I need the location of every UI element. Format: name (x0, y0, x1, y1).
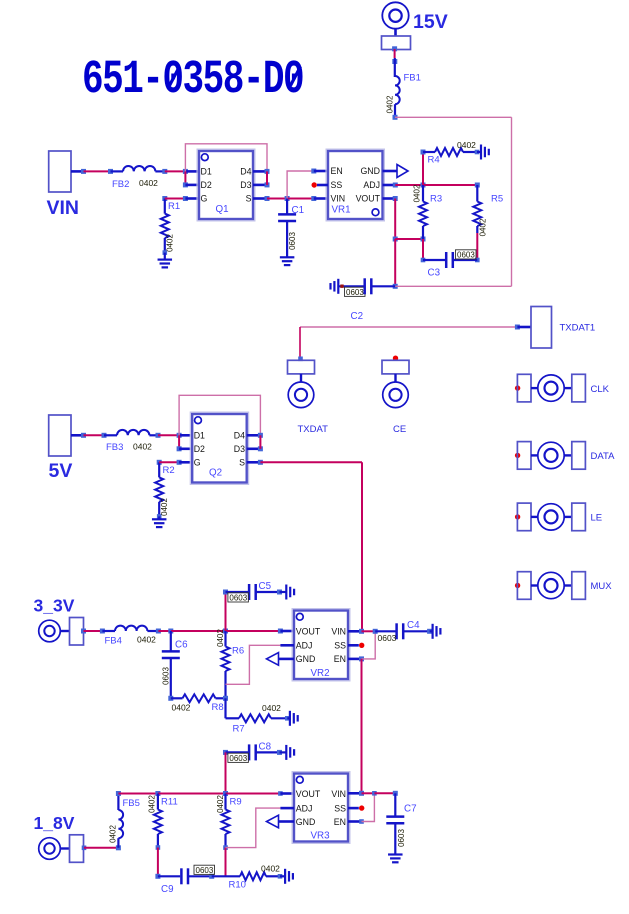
ground C8 (286, 745, 294, 760)
wire VR3 EN bracket (362, 793, 375, 821)
transistor Q2 (190, 412, 248, 484)
svg-text:C7: C7 (404, 804, 417, 815)
ground R2 (152, 519, 167, 527)
regulator VR1 (326, 149, 384, 221)
svg-text:D2: D2 (194, 444, 205, 454)
wire 15V to FB1 (392, 46, 397, 77)
wire D1-D2 tie (183, 171, 199, 187)
svg-text:FB1: FB1 (404, 73, 421, 84)
svg-text:0402: 0402 (109, 825, 118, 843)
resistor R10 (229, 864, 286, 891)
svg-text:R6: R6 (232, 646, 244, 657)
pins VR2 right (348, 629, 364, 662)
resistor R7 (226, 698, 290, 734)
wire Q2 D1-D2 tie (177, 435, 193, 451)
svg-text:R8: R8 (212, 702, 224, 713)
ground R1 (158, 260, 173, 268)
wire Q1 S to VR1 VIN (267, 196, 328, 201)
pin VR2 ADJ (280, 644, 294, 647)
svg-text:D4: D4 (240, 167, 251, 177)
connector 1_8V port (39, 835, 84, 863)
svg-text:VR1: VR1 (332, 205, 351, 216)
svg-text:CE: CE (393, 424, 406, 435)
wire FB3 to Q2 D1 (158, 433, 192, 438)
svg-text:VOUT: VOUT (296, 627, 321, 637)
connector VIN port (49, 151, 71, 192)
svg-text:0603: 0603 (162, 667, 171, 685)
svg-text:GND: GND (296, 654, 316, 664)
svg-text:VOUT: VOUT (356, 194, 381, 204)
ground C7 (388, 855, 403, 863)
svg-text:3_3V: 3_3V (34, 596, 75, 616)
svg-text:R2: R2 (163, 465, 175, 476)
capacitor C7 (386, 793, 416, 854)
svg-text:0603: 0603 (196, 866, 214, 875)
pin VR3 GND arrow (267, 815, 295, 828)
svg-text:GND: GND (360, 166, 380, 176)
resistor R4 (421, 140, 482, 185)
pin VR1 SS no-connect (312, 182, 329, 187)
transistor Q1 (197, 149, 255, 221)
wire 5V to FB3 (71, 433, 107, 438)
svg-text:VR3: VR3 (311, 830, 331, 841)
resistor R11 (148, 794, 178, 879)
testpoint CE (382, 356, 409, 436)
svg-text:S: S (239, 458, 245, 468)
svg-text:15V: 15V (413, 11, 448, 33)
svg-text:0603: 0603 (229, 754, 247, 763)
wire R1 to Q1 G (165, 196, 199, 201)
svg-text:0402: 0402 (386, 95, 395, 113)
svg-text:D3: D3 (240, 180, 251, 190)
svg-text:0402: 0402 (137, 635, 156, 645)
svg-text:G: G (194, 458, 201, 468)
capacitor C2 (331, 278, 396, 322)
svg-text:VOUT: VOUT (296, 789, 321, 799)
title 651-0358-D0 (82, 53, 303, 107)
ferrite bead FB3 (104, 430, 161, 453)
wire FB2 to Q1 D1 (165, 169, 199, 174)
svg-text:FB5: FB5 (123, 798, 140, 809)
svg-text:C5: C5 (259, 581, 272, 592)
svg-text:EN: EN (334, 817, 346, 827)
svg-text:0402: 0402 (261, 864, 280, 874)
ferrite bead FB1 (386, 73, 421, 120)
ferrite bead FB5 (109, 791, 140, 848)
capacitor C8 (223, 742, 286, 763)
svg-text:0402: 0402 (148, 795, 157, 813)
resistor R8 (168, 694, 228, 713)
svg-text:G: G (201, 194, 208, 204)
svg-text:1_8V: 1_8V (34, 813, 75, 833)
svg-text:ADJ: ADJ (363, 180, 380, 190)
wire main 1_8V rail (118, 791, 294, 796)
wire 1_8V to FB5 (82, 845, 121, 850)
wire VR2 EN bracket (362, 631, 376, 659)
net label 3_3V (34, 596, 75, 616)
wire main 3_3V rail (158, 629, 294, 634)
svg-text:0603: 0603 (288, 232, 297, 250)
pin VR1 GND arrow (383, 165, 409, 178)
svg-text:0603: 0603 (346, 288, 364, 297)
svg-text:0402: 0402 (457, 140, 476, 150)
svg-text:TXDAT1: TXDAT1 (560, 323, 596, 334)
svg-text:C9: C9 (161, 884, 174, 895)
connector DATA (515, 442, 615, 470)
connector 5V port (49, 415, 71, 456)
svg-text:S: S (246, 194, 252, 204)
ground R10 (285, 869, 293, 884)
net label 5V (49, 460, 73, 482)
wire VR3 VIN to C7 (362, 791, 398, 796)
capacitor C9 (161, 865, 240, 895)
svg-text:MUX: MUX (591, 581, 613, 592)
svg-text:0603: 0603 (457, 251, 475, 260)
pins Q2 right (247, 433, 263, 465)
wire 3_3V to FB4 (81, 629, 105, 634)
svg-text:C2: C2 (351, 311, 364, 322)
svg-text:0402: 0402 (160, 498, 169, 516)
regulator VR3 (292, 772, 350, 844)
svg-text:TXDAT: TXDAT (298, 424, 329, 435)
ground R4 (481, 145, 489, 160)
resistor R2 (155, 460, 174, 520)
svg-text:0402: 0402 (133, 442, 152, 452)
svg-text:R1: R1 (168, 201, 180, 212)
wire bottom 1_8V row (158, 875, 180, 877)
connector CLK (515, 374, 610, 402)
svg-text:0603: 0603 (378, 633, 397, 643)
svg-text:R3: R3 (430, 194, 442, 205)
pin VR2 GND arrow (267, 653, 295, 666)
ferrite bead FB2 (111, 166, 168, 190)
svg-text:CLK: CLK (591, 384, 610, 395)
svg-text:R4: R4 (428, 155, 440, 166)
svg-text:R7: R7 (233, 724, 245, 735)
svg-text:EN: EN (331, 166, 343, 176)
pin VR3 ADJ (280, 807, 294, 810)
testpoint TXDAT (288, 357, 329, 436)
svg-text:SS: SS (331, 180, 343, 190)
net label VIN (47, 197, 80, 219)
svg-text:EN: EN (334, 654, 346, 664)
svg-text:Q2: Q2 (209, 468, 222, 479)
wire EN loop (287, 169, 328, 199)
svg-text:D4: D4 (234, 431, 245, 441)
connector MUX (515, 572, 612, 600)
connector J 15V (382, 2, 411, 49)
svg-text:0402: 0402 (216, 795, 225, 813)
wire TXDAT net (300, 327, 517, 359)
svg-text:0402: 0402 (166, 234, 175, 252)
svg-text:D1: D1 (201, 167, 212, 177)
connector 3_3V port (39, 618, 84, 646)
svg-text:R9: R9 (230, 797, 242, 808)
wire VR1 ADJ net (383, 183, 480, 188)
svg-text:0402: 0402 (262, 703, 281, 713)
svg-text:GND: GND (296, 817, 316, 827)
svg-text:R5: R5 (491, 194, 503, 205)
svg-text:D3: D3 (234, 444, 245, 454)
svg-text:R11: R11 (161, 797, 178, 808)
svg-text:0603: 0603 (397, 829, 406, 847)
svg-text:FB4: FB4 (105, 636, 122, 647)
svg-text:VR2: VR2 (311, 668, 330, 679)
svg-text:C8: C8 (259, 742, 272, 753)
svg-text:ADJ: ADJ (296, 803, 313, 813)
capacitor C4 (362, 620, 433, 643)
svg-text:C3: C3 (428, 268, 441, 279)
svg-text:0402: 0402 (216, 629, 225, 647)
svg-text:FB3: FB3 (106, 442, 123, 453)
svg-text:C1: C1 (292, 205, 305, 216)
svg-text:VIN: VIN (331, 194, 346, 204)
capacitor C5 (223, 581, 286, 631)
pins VR3 right (348, 791, 364, 824)
svg-text:C4: C4 (407, 620, 420, 631)
svg-text:VIN: VIN (331, 627, 346, 637)
svg-text:VIN: VIN (47, 197, 80, 219)
ground C4 (433, 624, 441, 639)
net label 1_8V (34, 813, 75, 833)
resistor R6 (216, 629, 244, 699)
svg-text:VIN: VIN (331, 789, 346, 799)
svg-text:651-0358-D0: 651-0358-D0 (82, 53, 303, 107)
svg-text:ADJ: ADJ (296, 641, 313, 651)
svg-text:D1: D1 (194, 431, 205, 441)
wire C2 to rail (395, 285, 511, 287)
ground C1 (280, 257, 295, 265)
resistor R9 (216, 794, 242, 877)
svg-text:0402: 0402 (139, 178, 158, 188)
svg-text:0402: 0402 (412, 184, 421, 202)
regulator VR2 (292, 609, 350, 681)
connector LE (515, 503, 602, 531)
svg-text:SS: SS (334, 803, 346, 813)
svg-text:R10: R10 (229, 880, 246, 891)
wire Q2 S rail (260, 462, 362, 631)
wire 15V rail (395, 117, 512, 286)
svg-text:D2: D2 (201, 180, 212, 190)
wire VR2 ADJ elbow (226, 645, 281, 684)
wire loop Q1 top (185, 144, 267, 172)
capacitor C6 (162, 631, 189, 698)
connector TXDAT1 (515, 307, 595, 349)
svg-text:Q1: Q1 (216, 204, 229, 215)
wire VR1 VOUT down (383, 196, 426, 289)
net label 15V (413, 11, 448, 33)
svg-text:0402: 0402 (172, 703, 191, 713)
svg-text:C6: C6 (175, 640, 188, 651)
wire VR3 ADJ elbow (226, 808, 281, 848)
wire R2 to Q2 G (159, 460, 192, 465)
svg-text:5V: 5V (49, 460, 73, 482)
ferrite bead FB4 (102, 626, 160, 647)
capacitor C3 (423, 250, 477, 279)
wire C8 to rail (225, 752, 227, 793)
svg-text:FB2: FB2 (112, 179, 129, 190)
wire VR2 EN to VR3 (361, 659, 363, 793)
ground C5 (286, 585, 294, 600)
wire loop Q2 top (179, 395, 260, 435)
svg-text:SS: SS (334, 641, 346, 651)
wire VIN to FB2 (71, 169, 113, 174)
svg-text:0603: 0603 (229, 593, 247, 602)
svg-text:DATA: DATA (591, 451, 616, 462)
svg-text:0402: 0402 (479, 218, 488, 236)
resistor R5 (473, 185, 503, 262)
pins Q1 right (253, 169, 270, 201)
svg-text:LE: LE (591, 513, 603, 524)
resistor R1 (161, 196, 180, 260)
capacitor C1 (278, 199, 304, 257)
ground R7 (290, 711, 298, 726)
resistor R3 (412, 184, 442, 262)
